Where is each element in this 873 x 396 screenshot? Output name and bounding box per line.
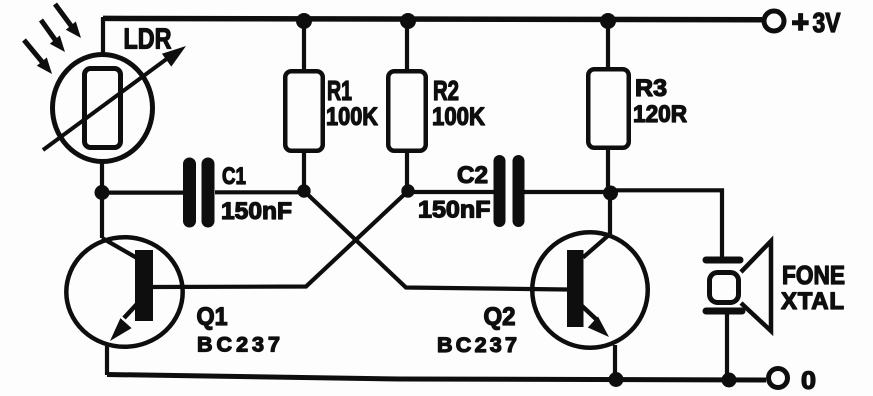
junction node D (R3/Q2) bbox=[603, 186, 618, 201]
terminal 0 bbox=[769, 369, 788, 388]
wire node A to C1 left plate bbox=[102, 191, 186, 195]
svg-text:Q1: Q1 bbox=[197, 303, 228, 331]
wire cross-coupling node C to Q1 base bbox=[153, 191, 408, 287]
junction node C (R2/C2) bbox=[401, 184, 414, 197]
svg-text:C1: C1 bbox=[222, 163, 246, 190]
wire R3 bottom lead bbox=[606, 149, 610, 191]
wire R2 bottom lead bbox=[405, 152, 409, 191]
junction node top R2 bbox=[400, 13, 416, 29]
svg-text:C2: C2 bbox=[457, 162, 488, 189]
transistor Q1 bbox=[66, 237, 182, 347]
svg-text:150nF: 150nF bbox=[418, 197, 491, 224]
resistor R2 bbox=[388, 71, 426, 151]
wire Q2 collector lead bbox=[608, 191, 612, 234]
wire LDR top lead bbox=[101, 17, 105, 54]
LDR bbox=[43, 46, 186, 162]
resistor R1 bbox=[285, 71, 323, 151]
svg-text:150nF: 150nF bbox=[221, 198, 292, 225]
wire R1 top lead bbox=[302, 19, 306, 70]
svg-text:3V: 3V bbox=[813, 7, 842, 38]
svg-text:BC237: BC237 bbox=[197, 333, 280, 357]
svg-text:100K: 100K bbox=[432, 103, 485, 131]
svg-text:BC237: BC237 bbox=[437, 333, 517, 357]
svg-text:Q2: Q2 bbox=[484, 303, 516, 331]
wire Q1 emitter to bottom rail bbox=[105, 346, 109, 375]
svg-text:R1: R1 bbox=[327, 75, 352, 106]
wire C2 right plate to node D bbox=[523, 190, 610, 194]
earphone FONE XTAL bbox=[706, 241, 771, 331]
capacitor C2 bbox=[500, 161, 519, 221]
svg-text:0: 0 bbox=[801, 367, 816, 395]
label +3V bbox=[792, 13, 809, 31]
resistor R3 bbox=[588, 69, 629, 148]
terminal +3V bbox=[764, 11, 784, 31]
svg-text:100K: 100K bbox=[326, 103, 378, 131]
capacitor C1 bbox=[190, 164, 209, 221]
wire top rail +3V bbox=[103, 18, 762, 19]
junction node top R1 bbox=[296, 13, 312, 29]
junction node Q2 emitter on rail bbox=[609, 372, 624, 387]
svg-text:120R: 120R bbox=[633, 101, 687, 128]
svg-text:FONE: FONE bbox=[782, 260, 845, 290]
wire bottom rail 0V bbox=[107, 375, 766, 381]
junction node top R3 bbox=[600, 13, 616, 29]
wire earphone bottom to 0 rail bbox=[725, 313, 729, 380]
wire Q2 emitter to bottom rail bbox=[613, 345, 617, 380]
wire node D to earphone top bbox=[610, 190, 722, 257]
junction node B (R1/C1) bbox=[297, 184, 310, 197]
svg-text:XTAL: XTAL bbox=[781, 288, 844, 315]
light arrow 3 bbox=[55, 4, 81, 38]
wire C1 right plate to node B bbox=[215, 190, 305, 194]
transistor Q2 bbox=[532, 232, 648, 348]
wire cross-coupling node B to Q2 base bbox=[304, 191, 567, 290]
light arrow 1 bbox=[24, 40, 52, 74]
wire R3 top lead bbox=[606, 19, 610, 68]
wire node C to C2 left plate bbox=[407, 190, 495, 194]
wire LDR bottom lead to Q1 collector region bbox=[100, 150, 104, 238]
junction node A (LDR/C1) bbox=[95, 185, 110, 200]
svg-text:R3: R3 bbox=[635, 75, 667, 102]
junction node earphone on rail bbox=[722, 373, 737, 388]
wire R1 bottom lead bbox=[302, 152, 306, 191]
light arrow 2 bbox=[41, 20, 65, 52]
svg-text:LDR: LDR bbox=[124, 24, 172, 56]
wire R2 top lead bbox=[405, 19, 409, 70]
svg-text:R2: R2 bbox=[433, 75, 459, 106]
